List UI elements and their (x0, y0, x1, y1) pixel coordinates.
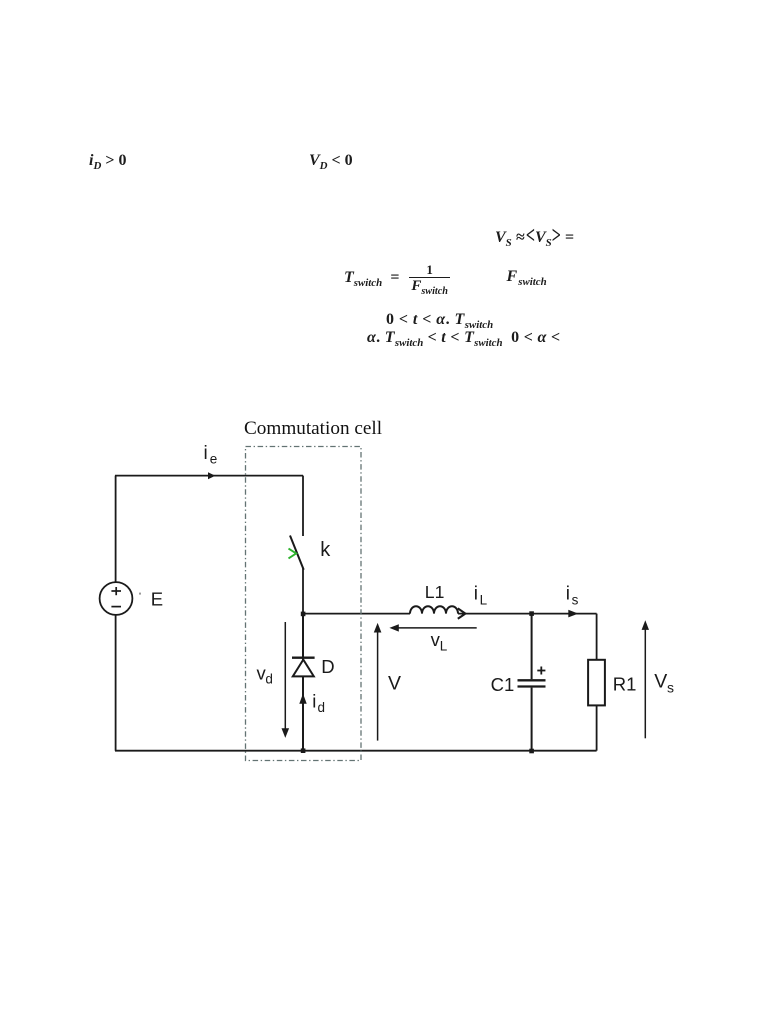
svg-text:L: L (440, 638, 448, 653)
svg-text:V: V (388, 672, 401, 694)
svg-text:V: V (654, 671, 667, 693)
svg-text:L: L (480, 592, 488, 607)
svg-text:d: d (265, 672, 273, 687)
svg-text:C1: C1 (491, 674, 515, 695)
svg-text:E: E (151, 588, 163, 609)
svg-text:i: i (312, 691, 316, 712)
svg-text:i: i (566, 584, 570, 605)
svg-text:e: e (210, 452, 218, 467)
svg-text:R1: R1 (613, 673, 637, 694)
svg-text:L1: L1 (425, 582, 445, 602)
svg-text:k: k (320, 539, 331, 561)
svg-text:i: i (204, 443, 208, 464)
svg-text:d: d (318, 700, 326, 715)
svg-text:s: s (667, 680, 674, 696)
svg-text:i: i (474, 584, 478, 605)
svg-text:s: s (572, 592, 579, 607)
svg-text:D: D (321, 656, 334, 677)
